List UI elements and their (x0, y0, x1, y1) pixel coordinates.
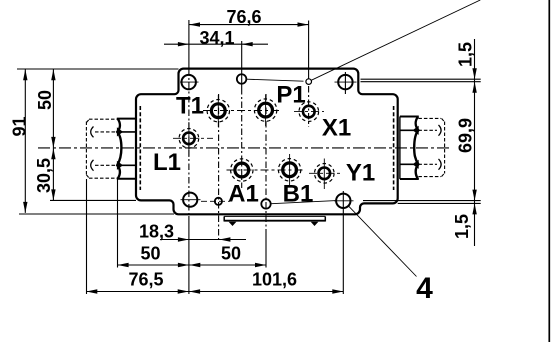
small hole bottom 1 (215, 198, 222, 205)
port B1 (283, 163, 297, 177)
svg-text:101,6: 101,6 (252, 270, 297, 290)
port P1 (259, 103, 273, 117)
leader line to corner hole for item 4 (348, 206, 416, 277)
wire: bottom extension line left (19, 213, 174, 215)
hex cusp knots left (117, 127, 123, 136)
dimension 34,1 (164, 43, 268, 45)
port Y1 (319, 168, 331, 180)
arrows 34,1 (178, 42, 189, 46)
mounting hole top-right (338, 75, 352, 89)
svg-text:P1: P1 (276, 82, 305, 109)
dimension 50 right bottom (189, 264, 266, 266)
dimension 76,5 (86, 291, 189, 293)
mounting hole top-left (182, 75, 196, 89)
wire: vertical extension x=86.3 (plug tip) (86, 179, 88, 294)
wire: vertical extension x=188.9 top (188, 20, 190, 69)
wire: vertical extension x=266 bottom (265, 230, 267, 268)
port X1 (303, 106, 315, 118)
arrows 101,6 (189, 289, 200, 293)
plug left: hidden thread outline (86, 119, 117, 178)
wire: interface double line top B (361, 81, 481, 83)
plug left: tip chamfer cusps (91, 127, 94, 138)
wire: vertical extension x=188.9 bottom (188, 216, 190, 294)
dimension 50 left bottom (118, 264, 189, 266)
svg-text:18,3: 18,3 (139, 222, 174, 242)
crosshair horizontal A1-B1 (227, 169, 306, 171)
centerline x=218.6 (T1 to small hole) (218, 94, 220, 242)
arrows 30,5 (51, 148, 55, 159)
frame border right (548, 0, 550, 342)
plug left: hidden bore dashed strip (139, 106, 141, 190)
arrows 1,5 bottom / 69,9 (472, 190, 476, 201)
svg-text:Y1: Y1 (346, 160, 375, 187)
svg-text:4: 4 (416, 272, 433, 305)
svg-text:X1: X1 (322, 115, 351, 142)
wire: notch extension line left (50, 199, 136, 201)
wire: main horizontal centerline (38, 147, 450, 149)
wire: vertical extension x=343.3 bottom (342, 191, 344, 294)
wire: slanted link small hole to corner hole (272, 201, 337, 204)
wire: top extension line left (17, 68, 179, 70)
centerline x=188.9 through plate (188, 69, 190, 216)
svg-text:91: 91 (9, 116, 29, 136)
svg-text:76,6: 76,6 (226, 7, 261, 27)
svg-text:50: 50 (221, 244, 241, 264)
crosshair horizontal T1-P1 (203, 110, 282, 112)
svg-text:T1: T1 (176, 93, 204, 120)
centerline x=308.6 (X1 vertical) (308, 86, 310, 127)
svg-text:A1: A1 (228, 181, 259, 208)
svg-text:69,9: 69,9 (456, 118, 476, 153)
small hole bottom 2 (261, 199, 270, 208)
port A1 (235, 163, 249, 177)
svg-text:B1: B1 (283, 181, 314, 208)
dimension 50/30,5 left (52, 69, 54, 200)
arrows 76,5 (86, 289, 97, 293)
plug right: tip chamfer cusps (439, 125, 442, 136)
wire: vertical extension x=308.6 top (308, 21, 310, 79)
svg-text:L1: L1 (153, 149, 181, 176)
triangle marker right on bar (311, 222, 319, 226)
arrows 50 vertical (51, 69, 55, 80)
wire: crosshair vertical top-right hole (344, 72, 346, 94)
leader line to port circle P1 area (311, 0, 480, 80)
wire: interface double line bottom B (398, 202, 481, 204)
hex cusp knots right (413, 126, 419, 135)
wire: vertical extension x=117.4 (hex edge) (117, 179, 119, 268)
arrows 50 right (189, 263, 200, 267)
arrowheads (23, 22, 477, 293)
arrows 50 left (118, 263, 129, 267)
arrows 91 (23, 69, 27, 80)
svg-text:76,5: 76,5 (128, 270, 163, 290)
hex head right (400, 117, 419, 180)
dimension 18,3 (160, 239, 246, 241)
svg-text:50: 50 (35, 90, 55, 110)
plug right: hidden thread outline (418, 118, 444, 176)
dimension 76,6 (189, 24, 309, 26)
centerline x=266 (P1 to small hole) (265, 94, 267, 230)
wire: interface double line top A (361, 78, 481, 80)
mounting hole bottom-right (336, 194, 350, 208)
svg-text:34,1: 34,1 (199, 28, 234, 48)
port L1 (183, 133, 195, 145)
leader target circle (306, 79, 312, 85)
arrows 18,3 (178, 237, 189, 241)
mounting hole bottom-left (183, 193, 197, 207)
svg-text:1,5: 1,5 (456, 42, 476, 67)
dimension 101,6 (189, 291, 343, 293)
hex head left (117, 119, 136, 179)
svg-text:30,5: 30,5 (34, 158, 54, 193)
svg-text:50: 50 (140, 244, 160, 264)
dimension 91 (24, 69, 26, 213)
plug right: hidden bore dashed strip (393, 106, 395, 190)
centerline x=241.7 (small hole to A1) (241, 88, 243, 188)
plate outline (136, 69, 398, 215)
wire: interface double line bottom A (363, 200, 481, 202)
triangle marker left on bar (229, 222, 237, 226)
arrows 1,5 top (472, 68, 476, 79)
svg-text:1,5: 1,5 (452, 214, 472, 239)
arrows 76,6 (189, 22, 200, 26)
locating bar under plate (224, 215, 325, 217)
small hole top (pin hole) (237, 74, 247, 84)
port T1 (211, 104, 225, 118)
wire: vertical extension x=241.7 top (241, 41, 243, 88)
dimension 1,5/69,9 right (474, 39, 476, 246)
